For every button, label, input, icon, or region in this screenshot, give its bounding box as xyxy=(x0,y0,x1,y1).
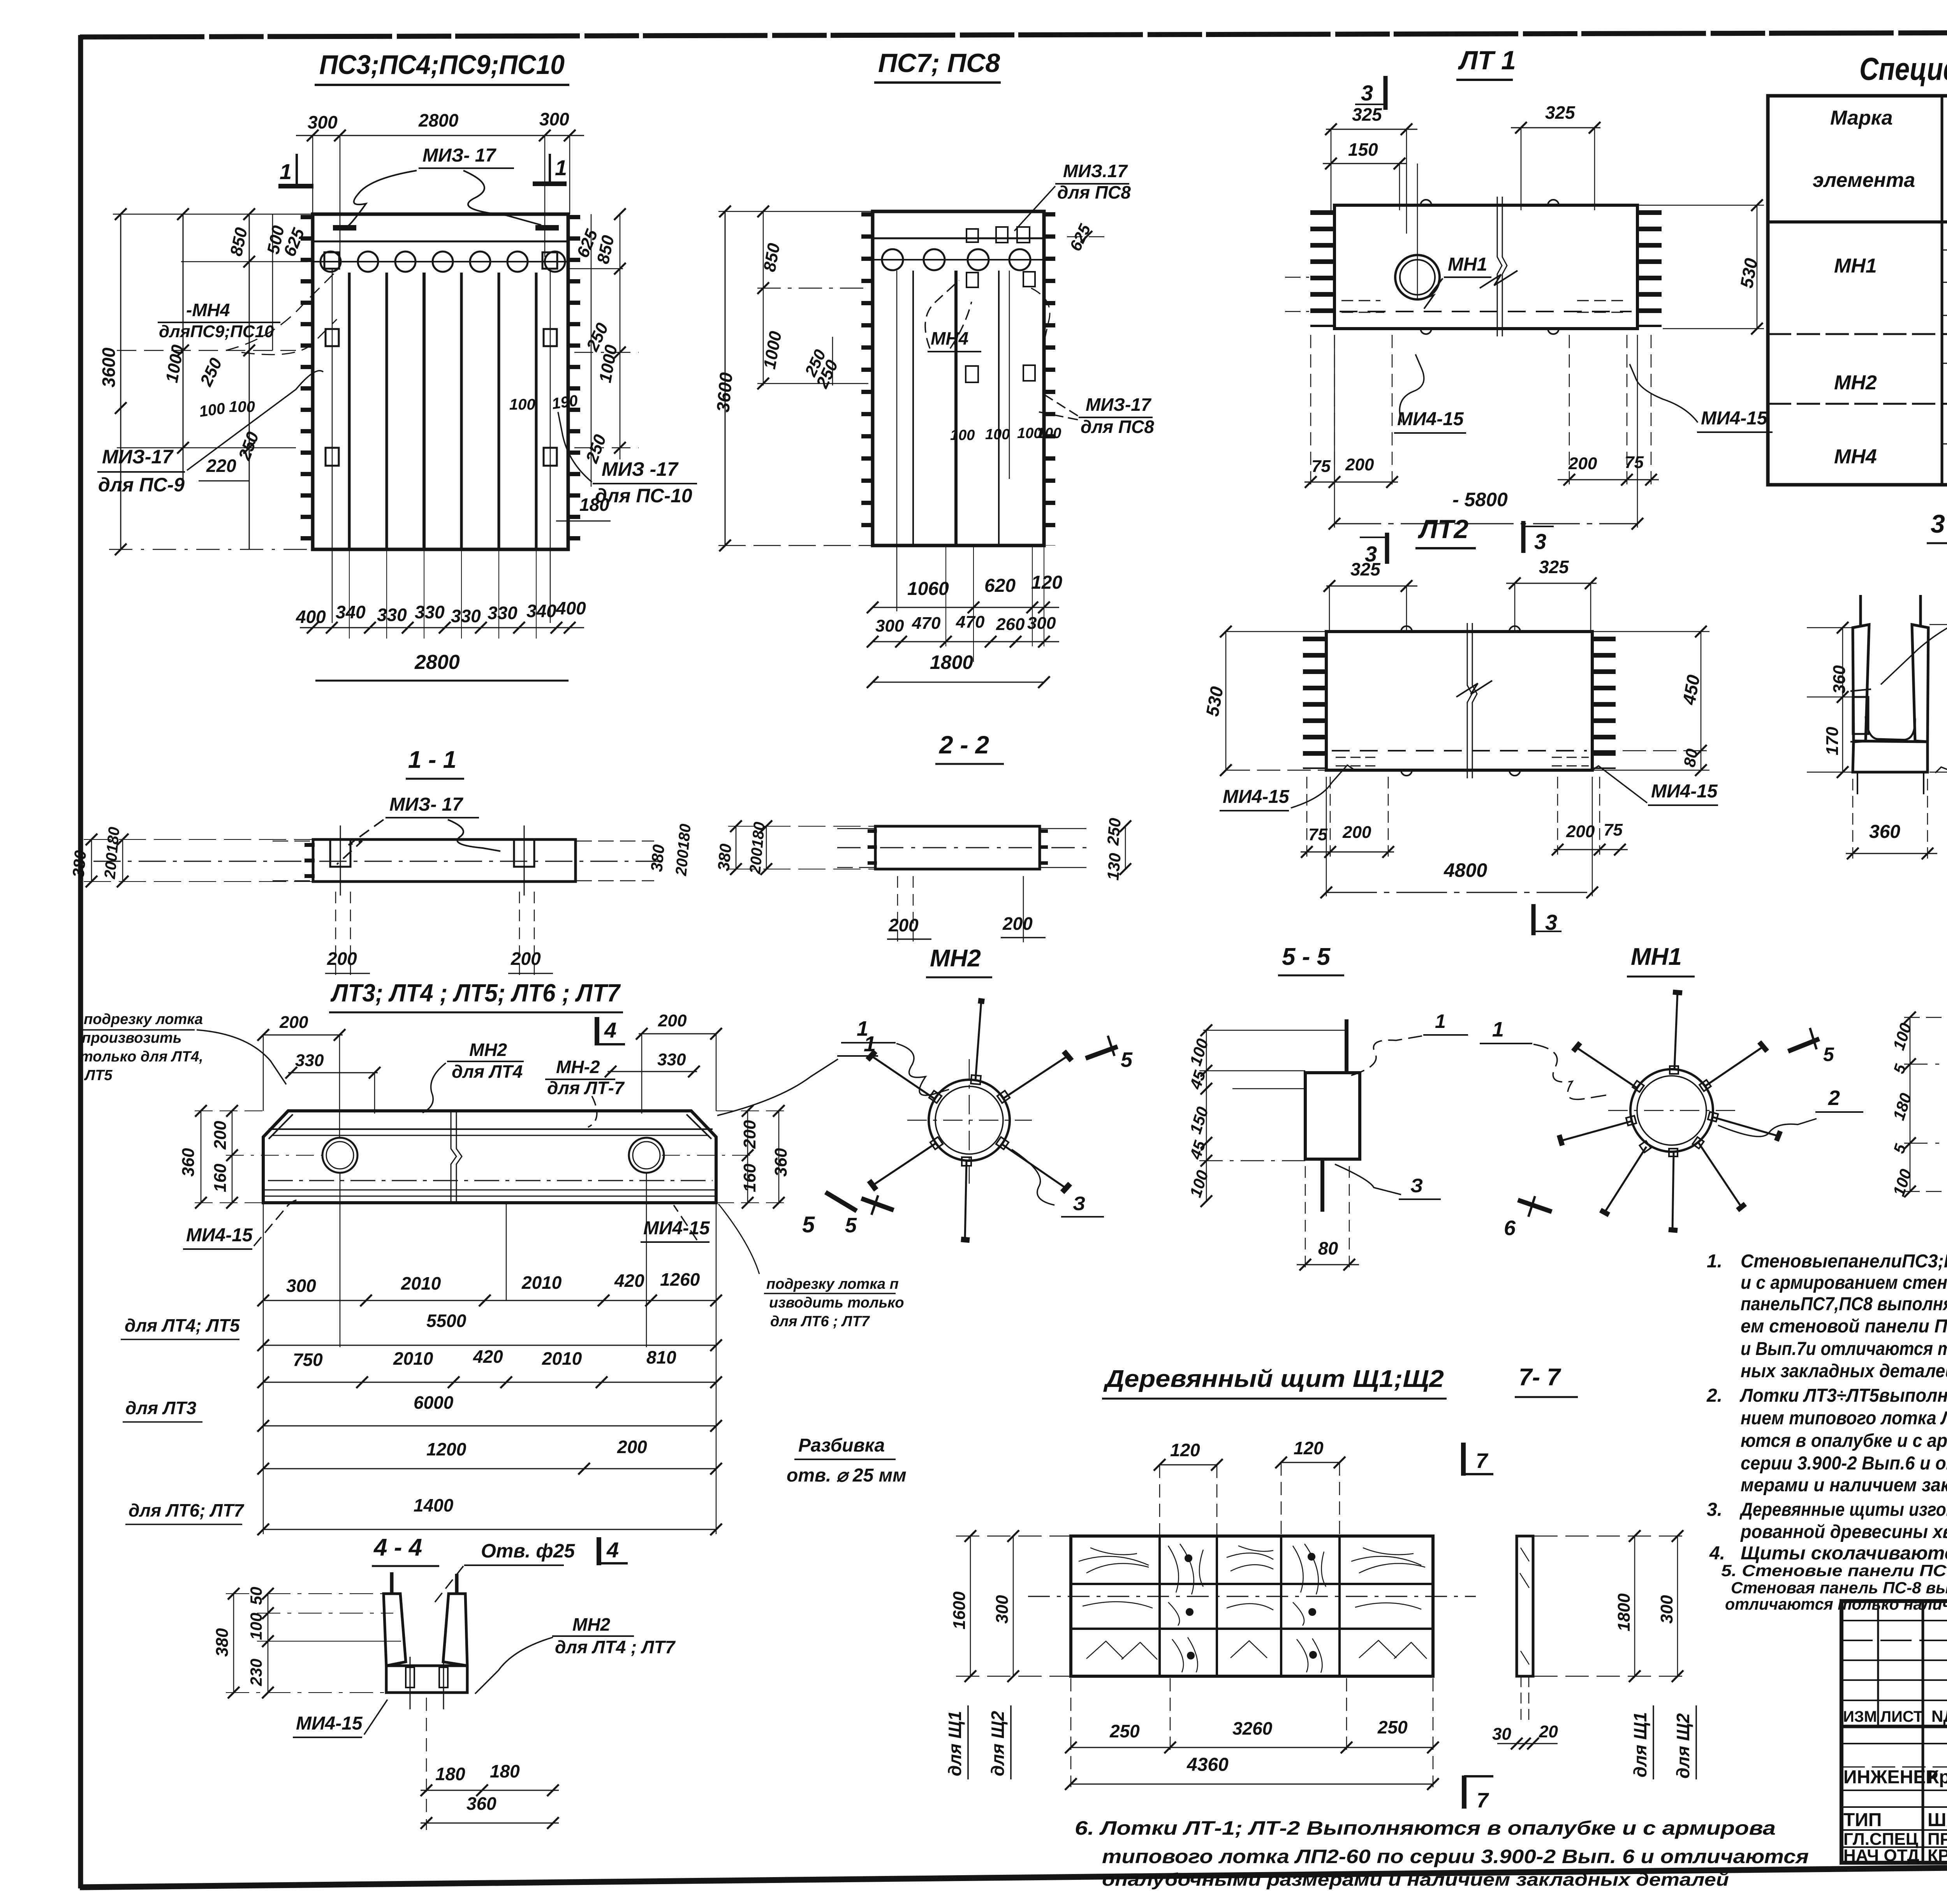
wood grain row2 xyxy=(1083,1602,1421,1626)
svg-text:ПС7; ПС8: ПС7; ПС8 xyxy=(878,48,1000,78)
low anchor squares xyxy=(326,448,339,466)
svg-text:330: 330 xyxy=(451,606,481,626)
circle 2 xyxy=(358,252,378,272)
dashed guides left xyxy=(1904,1064,1947,1065)
svg-text:3 - 3: 3 - 3 xyxy=(1931,509,1947,538)
svg-text:200: 200 xyxy=(1002,913,1033,934)
hole circle right xyxy=(629,1138,664,1173)
svg-text:7: 7 xyxy=(1477,1789,1489,1812)
svg-text:6000: 6000 xyxy=(414,1392,454,1413)
lotok bar xyxy=(1334,205,1637,329)
svg-text:2.: 2. xyxy=(1706,1385,1722,1406)
svg-text:1260: 1260 xyxy=(660,1269,700,1290)
svg-text:325: 325 xyxy=(1352,104,1382,125)
title block outer xyxy=(1841,1601,1947,1863)
chamfer inner left xyxy=(269,1114,293,1139)
svg-text:200: 200 xyxy=(1566,822,1595,841)
center break xyxy=(1467,623,1477,778)
svg-text:170: 170 xyxy=(1823,727,1842,755)
section mark 7 top xyxy=(1461,1443,1466,1476)
bottom double lines xyxy=(263,1190,716,1191)
left hatch ticks xyxy=(868,829,877,868)
U channel bottom bar xyxy=(386,1666,467,1693)
svg-text:200: 200 xyxy=(327,948,357,969)
svg-text:330: 330 xyxy=(295,1051,324,1070)
svg-text:СтеновыепанелиПС3;ПС10: СтеновыепанелиПС3;ПС10 xyxy=(1741,1251,1947,1272)
svg-text:МН1: МН1 xyxy=(1448,254,1487,275)
svg-text:325: 325 xyxy=(1350,559,1381,579)
spoke lower-left xyxy=(869,1137,943,1190)
anchor plate left xyxy=(330,839,350,867)
note 6 xyxy=(1075,1817,1809,1890)
svg-text:ЛТ3; ЛТ4 ; ЛТ5; ЛТ6 ; ЛТ7: ЛТ3; ЛТ4 ; ЛТ5; ЛТ6 ; ЛТ7 xyxy=(330,979,621,1007)
svg-text:МИЗ-17: МИЗ-17 xyxy=(1086,394,1152,415)
svg-text:470: 470 xyxy=(912,614,941,633)
svg-text:МИ4-15: МИ4-15 xyxy=(1701,408,1768,429)
circles row line xyxy=(873,259,1044,260)
svg-text:5. Стеновые панели ПС-4;ПС-9 в: 5. Стеновые панели ПС-4;ПС-9 выполняются… xyxy=(1721,1561,1947,1580)
svg-text:3: 3 xyxy=(1361,81,1373,105)
svg-text:МИ4-15: МИ4-15 xyxy=(1651,781,1718,802)
svg-text:МИЗ-17: МИЗ-17 xyxy=(102,446,174,468)
svg-text:1: 1 xyxy=(857,1017,868,1040)
right edge extension vertical xyxy=(716,1204,717,1534)
title block verticals left part xyxy=(1877,1601,1879,1726)
svg-text:ЛТ 1: ЛТ 1 xyxy=(1458,46,1516,75)
spoke down xyxy=(961,1157,971,1240)
svg-text:300: 300 xyxy=(993,1595,1012,1624)
top stubs xyxy=(1859,595,1862,626)
svg-text:330: 330 xyxy=(415,602,445,622)
svg-text:отличаются только наличием до: отличаются только наличием дополнительны… xyxy=(1725,1595,1947,1613)
wood grain row3 chevrons xyxy=(1086,1640,1427,1659)
svg-text:360: 360 xyxy=(1869,822,1900,842)
svg-text:для ЛТ4: для ЛТ4 xyxy=(452,1061,523,1082)
svg-text:300: 300 xyxy=(286,1276,316,1296)
frame top xyxy=(80,31,1947,37)
leader verticals from holes xyxy=(340,1173,341,1347)
svg-text:200: 200 xyxy=(1342,823,1371,842)
spoke down xyxy=(1672,1152,1674,1230)
svg-text:180: 180 xyxy=(490,1761,520,1781)
anchor squares top xyxy=(966,229,978,242)
svg-text:Разбивка: Разбивка xyxy=(798,1435,885,1456)
svg-text:120: 120 xyxy=(1294,1438,1324,1458)
svg-text:400: 400 xyxy=(296,607,326,627)
bolts in bottom bar xyxy=(406,1667,414,1688)
svg-text:для ПС-10: для ПС-10 xyxy=(595,485,692,507)
section flag 5 top right xyxy=(1086,1047,1118,1058)
svg-text:Крымский: Крымский xyxy=(1928,1767,1947,1788)
svg-text:НАЧ ОТД: НАЧ ОТД xyxy=(1843,1846,1919,1865)
table1 thin row lines xyxy=(1942,250,1947,251)
signature rows lines xyxy=(1841,1743,1947,1744)
svg-text:Стеновая панель ПС-8 выполняе: Стеновая панель ПС-8 выполняется в опалу… xyxy=(1731,1578,1947,1597)
svg-text:- 5800: - 5800 xyxy=(1452,489,1508,510)
spoke up xyxy=(1674,991,1678,1070)
top band line xyxy=(313,241,568,243)
svg-text:Отв. ф25: Отв. ф25 xyxy=(481,1540,575,1562)
spoke upper-left xyxy=(868,1051,942,1103)
svg-text:ШАПИРО: ШАПИРО xyxy=(1928,1810,1947,1830)
lotok bar xyxy=(1326,632,1592,770)
svg-text:380: 380 xyxy=(69,850,90,878)
svg-text:3: 3 xyxy=(1534,529,1546,554)
extension verticals to dims xyxy=(945,546,946,646)
svg-text:470: 470 xyxy=(956,612,985,632)
svg-text:620: 620 xyxy=(984,575,1016,596)
svg-text:360: 360 xyxy=(467,1793,496,1814)
svg-text:750: 750 xyxy=(293,1350,323,1370)
wood grain cell 5 xyxy=(1351,1548,1425,1573)
section mark 4 bottom xyxy=(597,1537,601,1565)
svg-text:1: 1 xyxy=(555,155,567,180)
right hatch ticks xyxy=(569,215,580,549)
U channel right prong xyxy=(443,1594,467,1666)
left hatch ticks xyxy=(861,212,872,546)
bar outline xyxy=(313,839,576,882)
svg-text:ИНЖЕНЕР: ИНЖЕНЕР xyxy=(1843,1767,1938,1788)
plate rect xyxy=(1305,1073,1360,1159)
svg-text:дляПС9;ПС10: дляПС9;ПС10 xyxy=(159,322,274,341)
svg-text:75: 75 xyxy=(1625,453,1644,472)
dashed verticals xyxy=(426,1698,427,1830)
svg-text:50: 50 xyxy=(247,1587,265,1605)
svg-text:3600: 3600 xyxy=(99,347,119,387)
svg-text:ЛТ5: ЛТ5 xyxy=(84,1067,113,1084)
svg-text:Деревянный щит Щ1;Щ2: Деревянный щит Щ1;Щ2 xyxy=(1103,1366,1444,1392)
svg-text:4: 4 xyxy=(604,1018,616,1042)
svg-text:6. Лотки ЛТ-1; ЛТ-2 Выполняют: 6. Лотки ЛТ-1; ЛТ-2 Выполняются в опалуб… xyxy=(1075,1817,1776,1839)
svg-text:ных закладных деталей.: ных закладных деталей. xyxy=(1741,1361,1947,1381)
dashed pockets xyxy=(1336,757,1379,766)
right dims 1800 300 xyxy=(1634,1536,1635,1676)
svg-text:КРАСАВИН: КРАСАВИН xyxy=(1928,1846,1947,1865)
left hatch ticks xyxy=(1303,637,1325,769)
right hatch ticks xyxy=(1044,212,1055,546)
svg-text:100: 100 xyxy=(985,426,1010,443)
svg-text:5500: 5500 xyxy=(426,1311,467,1331)
spoke lower-right xyxy=(1699,1143,1741,1207)
plank joints vertical lines xyxy=(348,273,351,549)
svg-text:панельПС7,ПС8 выполняется в оп: панельПС7,ПС8 выполняется в опалубке и с… xyxy=(1741,1294,1947,1314)
spoke up xyxy=(971,1001,984,1084)
svg-text:МИ4-15: МИ4-15 xyxy=(186,1225,253,1246)
circle 2 xyxy=(924,249,945,270)
svg-text:МИЗ.17: МИЗ.17 xyxy=(1063,161,1128,181)
shield verticals xyxy=(1158,1536,1161,1676)
right prong xyxy=(1912,625,1928,742)
circle 7 xyxy=(545,252,565,272)
horizontal guide top xyxy=(113,214,313,215)
svg-text:4800: 4800 xyxy=(1444,859,1487,881)
svg-text:для ЛТ3: для ЛТ3 xyxy=(125,1398,197,1418)
chamfer inner right xyxy=(687,1114,711,1139)
svg-text:3: 3 xyxy=(1545,910,1557,934)
wood grain cell 1 xyxy=(1079,1548,1149,1573)
svg-text:МН1: МН1 xyxy=(1834,255,1877,277)
spoke left xyxy=(1561,1121,1631,1141)
svg-text:4: 4 xyxy=(606,1538,619,1562)
svg-text:160: 160 xyxy=(211,1163,230,1192)
MN4 dashed leaders xyxy=(226,269,339,350)
svg-text:5 - 5: 5 - 5 xyxy=(1282,943,1331,970)
hole circle left xyxy=(322,1138,357,1173)
section flag 3 top xyxy=(1521,521,1526,553)
loop circles row line xyxy=(313,261,568,262)
svg-text:З: З xyxy=(1410,1175,1423,1197)
circle 3 xyxy=(395,252,415,272)
svg-text:2: 2 xyxy=(1828,1086,1840,1110)
left hatch ticks xyxy=(301,215,312,549)
svg-text:120: 120 xyxy=(1031,572,1062,593)
svg-text:7: 7 xyxy=(1476,1449,1489,1473)
svg-text:260: 260 xyxy=(996,615,1025,634)
circle 1 xyxy=(882,249,903,270)
svg-text:-МН4: -МН4 xyxy=(186,300,230,320)
svg-text:250: 250 xyxy=(1109,1721,1140,1741)
panel outline xyxy=(873,211,1044,546)
svg-text:только для ЛТ4,: только для ЛТ4, xyxy=(80,1049,203,1065)
frame bottom xyxy=(80,1860,1947,1887)
title block left thin rows xyxy=(1841,1620,1947,1621)
svg-text:МИЗ- 17: МИЗ- 17 xyxy=(422,145,496,166)
svg-text:200: 200 xyxy=(211,1121,230,1150)
svg-text:4 - 4: 4 - 4 xyxy=(373,1534,422,1561)
bottom dashdot line xyxy=(268,1180,713,1181)
left prong xyxy=(1853,625,1869,742)
svg-text:ем стеновой панели ПБУ2-36-1 п: ем стеновой панели ПБУ2-36-1 по серии 3.… xyxy=(1741,1316,1947,1337)
U channel left prong xyxy=(384,1594,406,1666)
bottom bar stub xyxy=(1320,1159,1324,1212)
lifting bumps top xyxy=(1421,200,1431,205)
svg-text:300: 300 xyxy=(539,109,569,129)
svg-text:330: 330 xyxy=(657,1050,686,1069)
svg-text:МН1: МН1 xyxy=(1631,943,1682,970)
svg-text:360: 360 xyxy=(179,1148,198,1177)
svg-text:200: 200 xyxy=(617,1437,647,1457)
7-7 bar xyxy=(1517,1536,1533,1676)
anchor plate right xyxy=(514,839,534,867)
svg-text:330: 330 xyxy=(488,603,518,623)
svg-text:1 - 1: 1 - 1 xyxy=(408,746,456,773)
svg-text:75: 75 xyxy=(1311,457,1331,476)
svg-text:2010: 2010 xyxy=(521,1272,562,1293)
svg-text:360: 360 xyxy=(771,1148,790,1177)
svg-text:Щиты сколачиваются по месту гв: Щиты сколачиваются по месту гвоздями е=7… xyxy=(1741,1543,1947,1564)
section flag 6 bottom left xyxy=(1518,1200,1552,1212)
circle 6 xyxy=(507,252,528,272)
spoke upper-right xyxy=(1705,1047,1763,1086)
svg-text:2010: 2010 xyxy=(542,1348,582,1369)
svg-text:ЛТ2: ЛТ2 xyxy=(1417,514,1468,544)
svg-text:серии 3.900-2 Вып.6 и отличают: серии 3.900-2 Вып.6 и отличаются опалубо… xyxy=(1741,1453,1947,1474)
svg-text:200: 200 xyxy=(888,915,919,935)
table1 section line MN2/MN4 xyxy=(1768,403,1947,405)
right hatch ticks xyxy=(1594,637,1616,769)
svg-text:5: 5 xyxy=(802,1212,815,1237)
spoke right xyxy=(1711,1117,1779,1136)
center cross dashdot xyxy=(907,1120,1032,1121)
center break xyxy=(1497,197,1507,336)
spoke upper-left xyxy=(1576,1047,1637,1088)
nail dots xyxy=(1185,1554,1192,1562)
svg-text:5: 5 xyxy=(1121,1048,1133,1072)
svg-text:произвозить: произвозить xyxy=(82,1030,181,1046)
svg-text:420: 420 xyxy=(614,1271,644,1291)
inner U curve xyxy=(1866,716,1915,740)
svg-text:420: 420 xyxy=(473,1346,503,1367)
svg-text:для ЛТ4; ЛТ5: для ЛТ4; ЛТ5 xyxy=(125,1315,240,1336)
circle 5 xyxy=(470,252,490,272)
svg-text:100: 100 xyxy=(509,396,535,413)
svg-text:2010: 2010 xyxy=(401,1273,441,1293)
corner anchor squares xyxy=(324,252,339,269)
svg-text:ются в опалубке и с армировани: ются в опалубке и с армированием лоткаЛП… xyxy=(1741,1431,1947,1451)
dashed leaders right xyxy=(1031,288,1050,339)
top dim line xyxy=(296,135,584,136)
svg-text:отв. ⌀ 25 мм: отв. ⌀ 25 мм xyxy=(787,1465,907,1486)
wood grain cell 3 xyxy=(1227,1546,1273,1571)
top stubs xyxy=(390,1572,394,1594)
pipe inner circle xyxy=(935,1086,1003,1154)
svg-text:Деревянные щиты изготовляются: Деревянные щиты изготовляются из антисеп… xyxy=(1739,1499,1947,1520)
spoke upper-right xyxy=(997,1051,1072,1103)
lotok body xyxy=(263,1111,716,1203)
svg-text:МИ4-15: МИ4-15 xyxy=(296,1713,363,1734)
shield horizontals xyxy=(1071,1583,1433,1585)
svg-text:300: 300 xyxy=(1027,614,1056,633)
top bar stub xyxy=(1345,1019,1348,1073)
lifting bumps xyxy=(1401,626,1412,632)
svg-text:220: 220 xyxy=(206,456,236,476)
right dim verticals xyxy=(591,214,592,487)
inner thin verticals from anchors xyxy=(332,269,333,623)
dashed line near bottom xyxy=(1340,311,1632,312)
svg-text:для ПС8: для ПС8 xyxy=(1081,417,1154,437)
panel outline xyxy=(313,214,568,549)
svg-text:80: 80 xyxy=(1680,747,1701,768)
extension lines from top dims xyxy=(312,135,313,214)
svg-text:100: 100 xyxy=(247,1613,265,1640)
svg-text:1.: 1. xyxy=(1707,1251,1722,1272)
svg-text:5: 5 xyxy=(845,1214,857,1237)
vertical line through circle xyxy=(1417,164,1418,300)
extension verticals xyxy=(263,1035,264,1111)
left dim verticals xyxy=(725,211,726,546)
svg-text:80: 80 xyxy=(1318,1238,1338,1258)
svg-text:для ЛТ4 ; ЛТ7: для ЛТ4 ; ЛТ7 xyxy=(555,1637,676,1657)
svg-text:для ПС8: для ПС8 xyxy=(1057,182,1131,202)
table1 outer border xyxy=(1768,96,1947,485)
svg-text:З: З xyxy=(1073,1193,1085,1214)
right hatch ticks xyxy=(1639,210,1662,327)
svg-text:рованной древесины хвойных пор: рованной древесины хвойных пород. xyxy=(1740,1522,1947,1542)
plank extension lines to bottom dims xyxy=(349,549,350,639)
svg-text:элемента: элемента xyxy=(1813,169,1915,192)
table1 header bottom xyxy=(1768,220,1947,223)
svg-text:200: 200 xyxy=(658,1011,687,1030)
svg-text:325: 325 xyxy=(1545,102,1576,123)
svg-text:340: 340 xyxy=(336,602,366,622)
svg-text:380: 380 xyxy=(714,843,735,872)
svg-text:и Вып.7и отличаются только нал: и Вып.7и отличаются только наличием допо… xyxy=(1741,1339,1947,1359)
bottom stub marks xyxy=(1857,772,1858,794)
svg-text:160: 160 xyxy=(740,1163,759,1192)
horizontal guides xyxy=(1199,1070,1305,1072)
svg-text:380: 380 xyxy=(213,1628,232,1657)
svg-text:ПС3;ПС4;ПС9;ПС10: ПС3;ПС4;ПС9;ПС10 xyxy=(319,49,565,80)
svg-text:1: 1 xyxy=(280,159,292,184)
svg-text:типового лотка ЛП2-60 по серии: типового лотка ЛП2-60 по серии 3.900-2 В… xyxy=(1102,1846,1809,1867)
svg-text:МИ4-15: МИ4-15 xyxy=(1397,409,1464,429)
svg-text:МН2: МН2 xyxy=(572,1614,611,1635)
svg-text:75: 75 xyxy=(1604,820,1623,839)
svg-text:опалубочными размерами и налич: опалубочными размерами и наличием заклад… xyxy=(1102,1869,1729,1890)
svg-text:для ЛТ-7: для ЛТ-7 xyxy=(547,1078,625,1098)
circle 3 xyxy=(968,249,989,270)
MIZ-17 leader curves xyxy=(335,171,417,228)
svg-text:1800: 1800 xyxy=(930,651,973,673)
svg-text:1: 1 xyxy=(1492,1018,1504,1041)
leaders xyxy=(337,820,384,864)
centerline dash-dot xyxy=(93,861,662,862)
section mark 7 bottom xyxy=(1462,1776,1466,1809)
table1 verticals xyxy=(1941,96,1943,485)
svg-text:2 - 2: 2 - 2 xyxy=(939,731,989,759)
svg-text:30: 30 xyxy=(1492,1725,1511,1744)
svg-text:150: 150 xyxy=(1348,139,1378,160)
left hatch ticks xyxy=(305,843,315,881)
guide dashed top xyxy=(273,841,312,842)
inner dashed lines xyxy=(837,847,1086,848)
left dim lines xyxy=(91,839,92,882)
svg-text:200: 200 xyxy=(279,1013,308,1032)
svg-text:300: 300 xyxy=(875,616,904,635)
svg-text:380: 380 xyxy=(647,844,668,873)
top band line xyxy=(873,238,1044,239)
dashed line near bottom xyxy=(1332,750,1587,751)
svg-text:для ПС-9: для ПС-9 xyxy=(98,474,185,496)
svg-text:Лотки ЛТ3÷ЛТ5выполняются в опа: Лотки ЛТ3÷ЛТ5выполняются в опалубке и с … xyxy=(1739,1385,1947,1406)
svg-text:300: 300 xyxy=(308,112,338,132)
circle 4 xyxy=(433,252,453,272)
svg-text:1200: 1200 xyxy=(426,1439,467,1459)
svg-text:180: 180 xyxy=(579,494,609,515)
anchor squares mid xyxy=(966,273,978,287)
svg-text:МН2: МН2 xyxy=(1834,371,1877,394)
svg-text:3260: 3260 xyxy=(1232,1718,1273,1739)
svg-text:20: 20 xyxy=(1539,1722,1558,1741)
left dims 1600 300 xyxy=(970,1536,971,1676)
svg-text:100: 100 xyxy=(229,398,255,415)
svg-text:810: 810 xyxy=(646,1347,676,1367)
mid anchor squares xyxy=(326,329,339,346)
svg-text:1400: 1400 xyxy=(414,1495,454,1515)
svg-text:100: 100 xyxy=(198,400,226,421)
svg-text:190: 190 xyxy=(551,392,579,413)
svg-text:МН4: МН4 xyxy=(1834,445,1877,468)
svg-text:400: 400 xyxy=(556,598,586,618)
svg-text:130: 130 xyxy=(1104,852,1124,881)
svg-text:изводить только: изводить только xyxy=(769,1295,904,1311)
plank verticals xyxy=(912,271,914,546)
table1 section line MN1/MN2 xyxy=(1768,333,1947,335)
svg-text:200: 200 xyxy=(511,948,541,969)
svg-text:200: 200 xyxy=(1568,454,1597,473)
svg-text:100: 100 xyxy=(1037,425,1061,442)
svg-text:ЛИСТ: ЛИСТ xyxy=(1880,1708,1923,1725)
